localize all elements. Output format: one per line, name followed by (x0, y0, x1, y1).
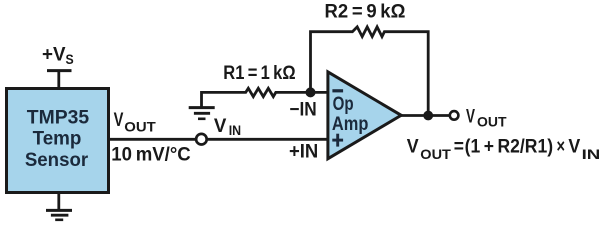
svg-text:Temp: Temp (33, 129, 82, 150)
svg-text:IN: IN (229, 123, 241, 138)
svg-text:Sensor: Sensor (25, 150, 89, 171)
svg-text:Amp: Amp (332, 114, 369, 135)
svg-text:−IN: −IN (289, 99, 316, 120)
svg-text:R1 = 1 kΩ: R1 = 1 kΩ (223, 63, 295, 84)
svg-text:OUT: OUT (124, 118, 156, 134)
svg-text:V: V (466, 106, 475, 127)
svg-text:OUT: OUT (420, 146, 451, 162)
svg-text:=: = (454, 137, 464, 158)
svg-text:OUT: OUT (477, 114, 507, 130)
svg-text:10 mV/°C: 10 mV/°C (111, 145, 191, 166)
svg-text:(1 + R2/R1): (1 + R2/R1) (465, 137, 553, 158)
svg-text:+V: +V (42, 44, 66, 65)
svg-text:R2 = 9 kΩ: R2 = 9 kΩ (325, 1, 406, 22)
svg-text:V: V (214, 116, 227, 137)
svg-text:V: V (568, 137, 580, 158)
svg-text:IN: IN (582, 146, 601, 162)
svg-text:Op: Op (333, 94, 354, 115)
svg-text:+IN: +IN (289, 142, 318, 163)
svg-text:S: S (66, 52, 74, 67)
svg-text:TMP35: TMP35 (27, 108, 90, 129)
svg-text:×: × (557, 137, 566, 158)
svg-text:V: V (114, 110, 124, 131)
svg-text:V: V (407, 137, 419, 158)
